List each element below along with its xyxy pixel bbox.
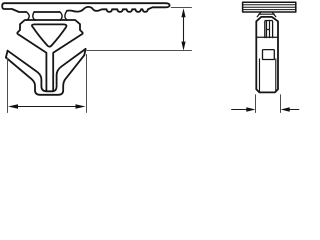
strap neck 1 (hourglass joining strap to head) (26, 12, 36, 21)
dimension: height extension line bottom (at wing tip level) (87, 50, 192, 52)
inner triangle window of head (32, 24, 67, 46)
right wing tip edge (84, 49, 85, 55)
dimension: wing span extension line right (86, 55, 88, 113)
inner channel lines of upper window (267, 21, 270, 38)
dimension: shaft width left tail line (232, 109, 247, 111)
shaft outer outline (256, 17, 278, 93)
lower window of shaft (263, 50, 275, 60)
left wing upper edge, straight then curving into slot beside stem (8, 51, 46, 91)
head and stem outline (shield shape with straight stem to arrow point) (17, 20, 82, 91)
arrowhead left of span dimension (8, 104, 18, 109)
circuit-free technical drawing of an arrowhead push-mount cable tie, two views (0, 0, 300, 119)
neck flare below head (257, 12, 276, 16)
dimension: height dimension line (183, 15, 185, 44)
dimension: wing span extension line left (7, 58, 9, 113)
right wing upper edge, straight then curving into slot beside stem (53, 49, 86, 91)
dimension: shaft width right tail line (289, 109, 299, 111)
arrowhead pointing left to shaft right edge (281, 107, 290, 111)
left wing tip edge (6, 51, 8, 58)
dimension: shaft width extension line right (280, 95, 282, 113)
dimension: wing span dimension line (17, 106, 78, 108)
head block lamination lines (243, 5, 296, 10)
shaft cross line (256, 36, 278, 38)
arrowhead right of span dimension (76, 104, 86, 109)
upper window of shaft (265, 21, 273, 38)
front view: tie head block (243, 2, 296, 12)
shaft inner wall lines (260, 59, 276, 92)
side view: strap outline with tail cap, tip cap and serrated underside (2, 3, 169, 12)
arrowhead bottom of height dimension (181, 42, 185, 51)
dimension: height extension line top (at strap tip) (171, 7, 191, 9)
arrowhead top of height dimension (181, 8, 185, 17)
wing lower edges and arrow point bottom (6, 55, 84, 95)
dimension: shaft width extension line left (255, 95, 257, 113)
arrowhead pointing right to shaft left edge (246, 107, 255, 111)
strap neck 2 (60, 11, 68, 20)
strap bottom edge between necks (34, 11, 59, 13)
